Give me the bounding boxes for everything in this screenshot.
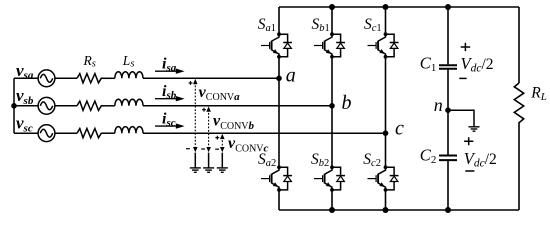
resistor Rs phase a [77,74,103,83]
leg c top wire [385,7,387,34]
svg-text:Sb2: Sb2 [311,151,329,169]
svg-text:Ls: Ls [122,53,135,70]
phase b wire: bus to source [14,105,38,107]
node b dot [329,103,335,109]
wire inductor to node c [143,132,386,134]
ground of vCONVc [217,168,228,172]
svg-text:vsb: vsb [16,86,34,107]
current arrow isa [155,56,185,75]
capacitor C2 [439,156,457,161]
inductor Ls phase b [115,99,143,106]
leg c bottom wire [385,190,387,210]
node n dot [445,107,451,113]
voltage arrow vCONVa (dashed, double headed) [186,79,198,152]
leg b top wire [331,7,333,34]
resistor Rs phase b [77,101,103,110]
node a dot [276,76,282,82]
IGBT switch Sb1 [314,32,345,58]
svg-text:Vdc/2: Vdc/2 [461,54,494,75]
wire source b to resistor [55,105,77,107]
inductor Ls phase c [115,127,143,134]
capacitor branch lower wire [447,161,449,210]
ground at node n [469,127,480,131]
phase c wire: bus to source [14,132,38,134]
leg c wire switch to node c [385,57,387,133]
inductor Ls phase a [115,72,143,79]
top rail junction dot capacitor branch [445,4,451,10]
svg-text:Vdc/2: Vdc/2 [464,149,497,170]
wire inductor to node a [143,77,279,79]
wire resistor to inductor phase c [103,132,115,134]
junction dot on left bus [11,103,17,109]
svg-text:C1: C1 [420,54,437,75]
current arrow isb [155,83,185,102]
top rail junction dot leg c [383,4,389,10]
IGBT switch Sc1 [368,32,399,58]
resistor Rs phase c [77,129,103,138]
minus sign of Vdc/2 upper [459,77,466,79]
AC source vsb [38,97,55,114]
IGBT switch Sb2 [314,165,345,191]
plus sign of Vdc/2 lower [464,137,473,145]
svg-text:RL: RL [530,85,547,103]
wire arrow b to ground [208,153,210,168]
leg a wire switch to node a [278,57,280,79]
leg a top wire [278,7,280,34]
node c dot [383,130,389,136]
load branch lower wire [518,127,520,210]
svg-text:isa: isa [162,56,177,75]
phase a wire: bus to source [14,77,38,79]
leg b bottom wire [331,190,333,210]
svg-text:Sa1: Sa1 [258,16,276,34]
bottom rail junction dot leg b [329,207,335,213]
bottom rail junction dot capacitor branch [445,207,451,213]
wire arrow a to ground [194,153,196,168]
svg-text:vsc: vsc [16,114,33,135]
leg b wire switch to node b [331,57,333,106]
svg-text:Sb1: Sb1 [312,16,330,34]
ground of vCONVb [203,168,214,172]
IGBT switch Sa1 [261,32,292,58]
wire arrow c to ground [221,153,223,168]
current arrow isc [155,111,185,130]
svg-text:Sc1: Sc1 [364,16,382,34]
top DC rail [279,6,519,8]
wire source c to resistor [55,132,77,134]
svg-text:c: c [395,117,404,139]
leg a bottom wire [278,190,280,210]
svg-text:vsa: vsa [16,61,34,82]
svg-text:b: b [342,92,352,114]
bottom DC rail [279,209,519,211]
bottom rail junction dot leg c [383,207,389,213]
svg-text:n: n [434,95,443,115]
minus sign of Vdc/2 lower [465,170,474,172]
ground of vCONVa [190,168,201,172]
svg-text:Rs: Rs [83,53,96,70]
IGBT switch Sa2 [261,165,292,191]
leg a wire node a to bottom switch [278,78,280,167]
svg-text:isc: isc [162,111,176,130]
leg c wire node c to bottom switch [385,133,387,167]
capacitor branch wire C1 to C2 [447,70,449,155]
svg-text:CONVb: CONVb [220,120,254,132]
svg-text:C2: C2 [420,145,437,166]
left bus vertical wire [13,78,15,133]
IGBT switch Sc2 [368,165,399,191]
svg-text:a: a [286,65,296,87]
voltage arrow vCONVb (dashed, double headed) [201,106,211,152]
wire source a to resistor [55,77,77,79]
capacitor C1 [439,65,457,69]
voltage arrow vCONVc (dashed, double headed) [215,134,224,153]
wire node n to ground [448,110,474,126]
wire resistor to inductor phase b [103,105,115,107]
load branch upper wire [518,7,520,83]
AC source vsa [38,70,55,87]
wire resistor to inductor phase a [103,77,115,79]
leg b wire node b to bottom switch [331,106,333,168]
svg-text:CONVa: CONVa [206,91,240,103]
capacitor branch upper wire [447,7,449,64]
svg-text:isb: isb [162,83,177,102]
load resistor RL [514,83,523,127]
svg-text:Sc2: Sc2 [363,151,381,169]
top rail junction dot leg b [329,4,335,10]
AC source vsc [38,125,55,142]
wire inductor to node b [143,105,332,107]
plus sign of Vdc/2 upper [461,43,471,51]
